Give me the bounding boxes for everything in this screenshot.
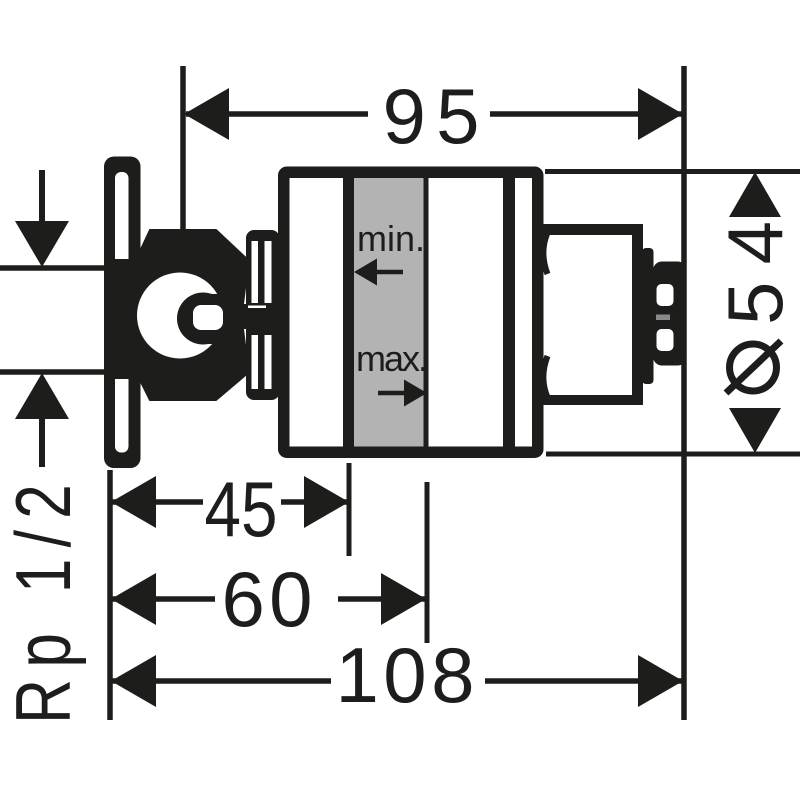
dim 60 arrow right	[381, 573, 426, 625]
main body fill	[278, 167, 544, 459]
dim 108 arrow left	[111, 655, 156, 707]
dim 45 line	[110, 499, 203, 505]
gray band right thin line	[424, 177, 429, 447]
extension line lower of Rp1/2	[0, 369, 106, 375]
extension line max (60 right)	[425, 482, 430, 643]
extension line top of dim D54	[545, 169, 800, 174]
gray band left thick line	[343, 177, 354, 447]
gray band min-max	[354, 177, 424, 447]
cap hole bottom	[657, 329, 674, 351]
dim 95 line	[186, 111, 368, 117]
svg-text:Rp 1/2: Rp 1/2	[0, 473, 87, 724]
fillet bottom	[543, 356, 547, 396]
main body outline	[284, 172, 538, 452]
end cap	[653, 262, 687, 366]
bracket slot 3	[252, 335, 259, 389]
min arrow	[354, 259, 377, 286]
bracket sliver bottom	[248, 322, 266, 328]
cap gray dash	[656, 315, 670, 321]
dim 108 line	[110, 678, 331, 684]
extension line right of dim 95/108	[681, 66, 687, 720]
dim D54 diameter symbol	[730, 344, 777, 391]
Rp 1/2 dim arrow up	[15, 373, 69, 419]
max arrow	[404, 380, 427, 407]
white notch top	[244, 280, 257, 304]
bracket slot 1	[252, 241, 259, 303]
valve spindle slot	[193, 305, 223, 330]
dim 60 line	[110, 596, 215, 602]
bracket slot 2	[265, 241, 272, 303]
extension line left of dims 45/60/108	[107, 470, 113, 720]
svg-text:min.: min.	[357, 218, 425, 259]
valve bore circle	[137, 273, 223, 359]
dim 108 arrow right	[638, 655, 683, 707]
body divider line	[503, 177, 515, 447]
extension line min (45 right)	[347, 463, 352, 556]
dim D54 arrow top	[729, 172, 781, 217]
dim 45 arrow left	[111, 476, 156, 528]
dim 45 arrow right	[304, 476, 349, 528]
extension line left of dim 95 (valve axis)	[180, 66, 186, 229]
white notch bottom	[244, 329, 257, 353]
svg-text:108: 108	[336, 631, 475, 719]
center stub	[224, 308, 290, 329]
dim D54 arrow bottom	[729, 408, 781, 453]
step cylinder top shoulder	[537, 224, 638, 235]
bracket slot 4	[265, 335, 272, 389]
dim 95 arrow right	[638, 88, 683, 140]
extension line bottom of dim D54	[546, 452, 800, 457]
wall plate slot	[115, 172, 129, 453]
wall plate	[104, 157, 141, 469]
step cylinder right edge	[632, 224, 643, 405]
bracket column	[246, 230, 280, 400]
svg-text:45: 45	[205, 465, 278, 553]
Rp 1/2 dim arrow down	[39, 170, 45, 223]
valve spindle C ring	[177, 293, 229, 345]
svg-text:5 4: 5 4	[711, 221, 799, 325]
fillet top	[543, 234, 547, 274]
dim 95 arrow left	[184, 88, 229, 140]
cap hole top	[657, 284, 674, 306]
step cylinder bottom shoulder	[537, 395, 638, 405]
svg-text:max.: max.	[356, 338, 428, 379]
valve body octagon	[137, 230, 250, 400]
extension line upper of Rp1/2	[0, 265, 106, 271]
valve hub	[112, 259, 152, 379]
neck bar	[642, 248, 654, 384]
dim 60 arrow left	[111, 573, 156, 625]
bracket sliver top	[248, 306, 266, 312]
